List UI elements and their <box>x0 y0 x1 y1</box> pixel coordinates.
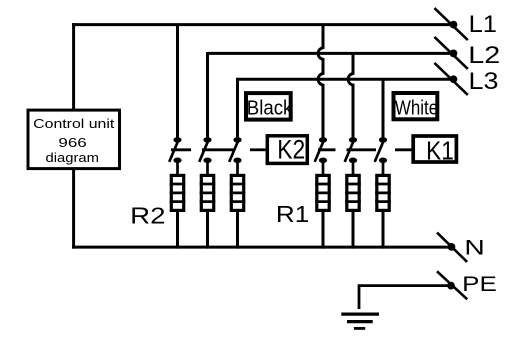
coil K2 <box>267 134 307 165</box>
linkage bars and coil leads <box>171 148 412 151</box>
coil K1 <box>413 135 456 165</box>
linkage bar K1 pole2 <box>347 148 377 151</box>
svg-text:K2: K2 <box>277 134 305 165</box>
resistor R2 element 3 <box>230 175 246 248</box>
linkage bar K2 pole1 <box>171 148 191 151</box>
svg-text:White: White <box>395 97 438 120</box>
switch contact right pole 1 <box>315 137 327 175</box>
resistor R2 elements <box>170 175 391 248</box>
svg-text:Control unit: Control unit <box>33 116 114 131</box>
resistor R2 element 1 <box>170 175 186 248</box>
wire drop L3 corner to left pole 3 <box>236 78 239 138</box>
wire drop L1 to left pole 1 <box>176 25 179 138</box>
svg-text:Black: Black <box>247 97 293 120</box>
contactor poles <box>169 137 387 175</box>
svg-text:R1: R1 <box>276 201 309 227</box>
wire lead to K1 coil <box>395 148 412 151</box>
svg-text:N: N <box>464 236 484 260</box>
svg-text:L2: L2 <box>468 42 500 69</box>
svg-text:R2: R2 <box>130 203 165 229</box>
wire drop L2 to right pole 2 with hop over L3 <box>348 53 353 137</box>
svg-text:diagram: diagram <box>46 150 99 165</box>
wire L2 bus <box>208 52 454 55</box>
wire drop L1 to right pole 1 with hops over L2 and L3 <box>318 25 323 138</box>
switch contact right pole 3 <box>375 137 387 175</box>
svg-text:PE: PE <box>462 272 497 296</box>
resistor R1 element 3 <box>375 175 391 248</box>
wire lead to K2 coil <box>250 148 266 151</box>
linkage bar K2 pole2-3 <box>202 148 235 151</box>
resistor R2 element 2 <box>200 175 216 248</box>
ground <box>341 314 379 328</box>
label box Black <box>246 93 293 120</box>
wire left vertical from control unit box to bottom N bus <box>72 169 75 249</box>
wire drop L3 to right pole 3 <box>382 79 385 137</box>
terminal L2 <box>434 37 500 69</box>
svg-text:966: 966 <box>58 135 86 150</box>
label box White <box>394 93 439 120</box>
svg-text:L1: L1 <box>469 11 497 38</box>
svg-text:K1: K1 <box>426 135 454 165</box>
switch contact left pole 3 <box>229 137 241 175</box>
wire L3 bus <box>238 78 454 81</box>
switch contact left pole 2 <box>199 137 211 175</box>
wire left vertical from L1 bus to control unit box <box>72 23 75 109</box>
wire drop L2 corner to left pole 2 <box>206 52 209 138</box>
terminal L1 <box>434 8 497 40</box>
terminal N <box>437 233 485 262</box>
switch contact right pole 2 <box>345 137 357 175</box>
resistor R1 element 2 <box>345 175 361 248</box>
terminal PE <box>437 271 497 299</box>
linkage bar K1 pole1 <box>318 148 336 151</box>
wire L1 top bus <box>72 23 453 26</box>
wire bottom N bus <box>72 246 451 249</box>
svg-text:L3: L3 <box>469 68 499 95</box>
resistor R1 element 1 <box>315 175 331 248</box>
terminal L3 <box>434 63 498 95</box>
wire PE to ground <box>359 286 450 309</box>
switch contact left pole 1 <box>169 137 181 175</box>
control unit box <box>28 110 120 169</box>
